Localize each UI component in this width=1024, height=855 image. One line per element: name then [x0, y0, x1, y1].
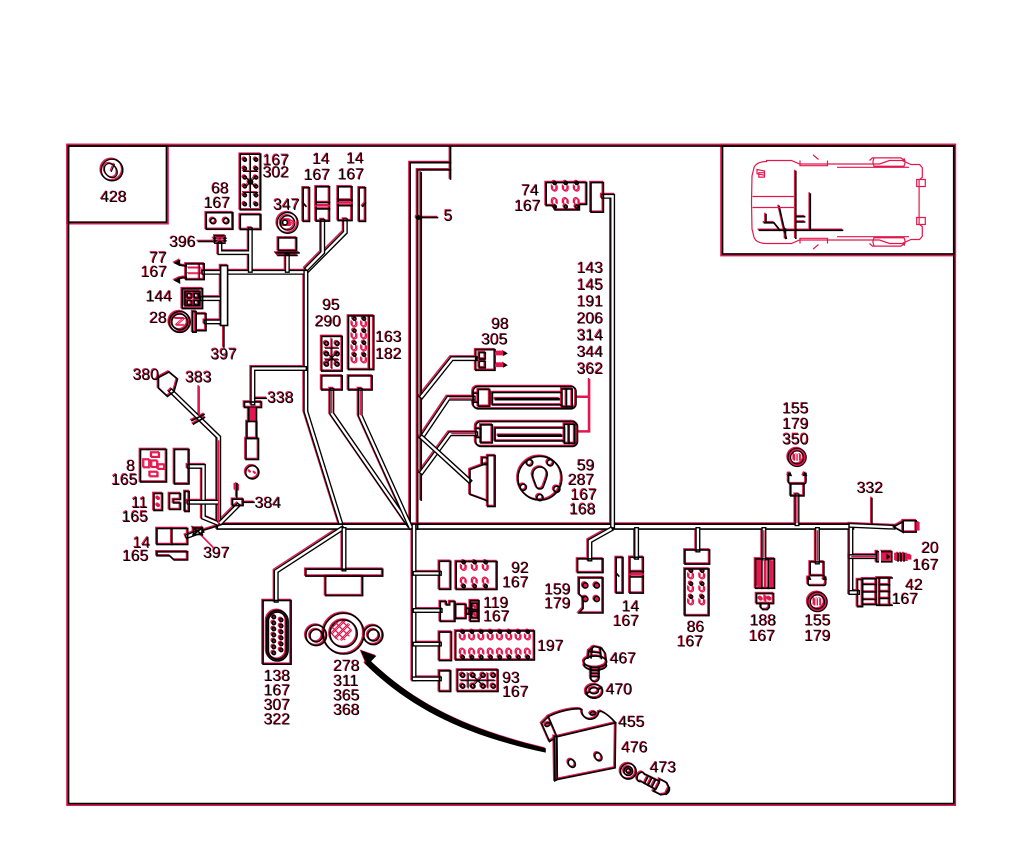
box 428 red copy [67, 144, 168, 223]
box 428 [69, 146, 167, 222]
car outline [752, 155, 926, 249]
outer border [69, 146, 954, 804]
outer border red copy [67, 144, 955, 805]
car box red copy [721, 144, 955, 255]
car box [723, 146, 954, 254]
